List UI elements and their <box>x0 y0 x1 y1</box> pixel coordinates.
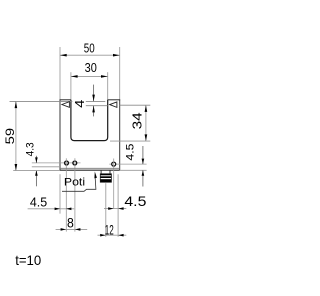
svg-text:59: 59 <box>5 128 17 145</box>
dimension line 59 <box>15 101 17 170</box>
dimension 12 <box>98 234 127 236</box>
dimension 4 (top edge to optical axis) <box>93 85 95 102</box>
dimension 8 <box>56 228 88 230</box>
reference line at body top, right part inside slot <box>86 100 106 102</box>
potentiometer screw head <box>100 174 111 182</box>
mounting hole right <box>112 162 116 166</box>
potentiometer screw neck <box>100 170 102 174</box>
svg-text:8: 8 <box>67 215 74 230</box>
dimension line 30 <box>71 75 108 77</box>
extension line slot bottom to right <box>110 140 150 142</box>
svg-text:4.5: 4.5 <box>124 144 136 161</box>
dimension 4.3 <box>35 156 37 163</box>
body right edge <box>119 100 121 170</box>
leader line from Poti to screw <box>62 178 96 191</box>
dimension line 34 <box>145 105 147 141</box>
mounting hole left 2 <box>73 161 77 165</box>
vertical centerline hole 1 <box>65 158 67 231</box>
bottom extension line to the right <box>120 169 147 171</box>
seam line near bottom of body <box>60 167 120 169</box>
extension of screw center downward <box>105 183 107 237</box>
extension line left of 30 dim <box>70 72 72 100</box>
dimension 4.5 right side vertical <box>142 146 144 164</box>
body top edge right arm <box>108 99 121 101</box>
extension line right of 30 dim <box>107 72 109 100</box>
bottom extension line to the left <box>13 170 60 172</box>
dimension 4.5 bottom right <box>104 208 126 210</box>
dimension line 50 <box>60 54 120 56</box>
mounting hole left 1 <box>65 161 69 165</box>
optical axis line <box>86 105 108 107</box>
body bottom edge <box>60 169 120 171</box>
vertical centerline hole 2 <box>74 158 76 231</box>
optical axis marker triangle left arm <box>62 102 70 108</box>
reference line at body top (59 dim top reference), left part <box>10 100 73 102</box>
centerline through left holes <box>32 162 81 164</box>
extension of body right edge downward <box>117 174 119 237</box>
svg-text:Poti: Poti <box>64 177 85 189</box>
dimension 4.5 bottom left <box>28 208 75 210</box>
svg-text:4: 4 <box>72 100 87 108</box>
svg-text:12: 12 <box>105 222 114 237</box>
centerline right hole vertical <box>113 159 115 209</box>
svg-text:t=10: t=10 <box>15 252 41 268</box>
svg-text:4.5: 4.5 <box>30 195 47 209</box>
tick below left holes (4.3 reference) <box>32 166 60 168</box>
fork slot outline <box>71 100 108 141</box>
extension of body left edge downward <box>59 174 61 213</box>
body left edge <box>59 100 61 170</box>
svg-text:4.3: 4.3 <box>24 142 36 156</box>
extension line left of 50 dim <box>59 47 61 100</box>
svg-text:30: 30 <box>85 60 97 75</box>
body top edge left arm <box>60 99 71 101</box>
extension line right of 50 dim <box>119 47 121 100</box>
svg-text:50: 50 <box>84 41 95 56</box>
optical axis marker triangle right arm <box>110 102 117 108</box>
centerline right hole horizontal <box>109 163 146 165</box>
svg-text:4.5: 4.5 <box>124 194 146 209</box>
svg-text:34: 34 <box>130 112 144 129</box>
